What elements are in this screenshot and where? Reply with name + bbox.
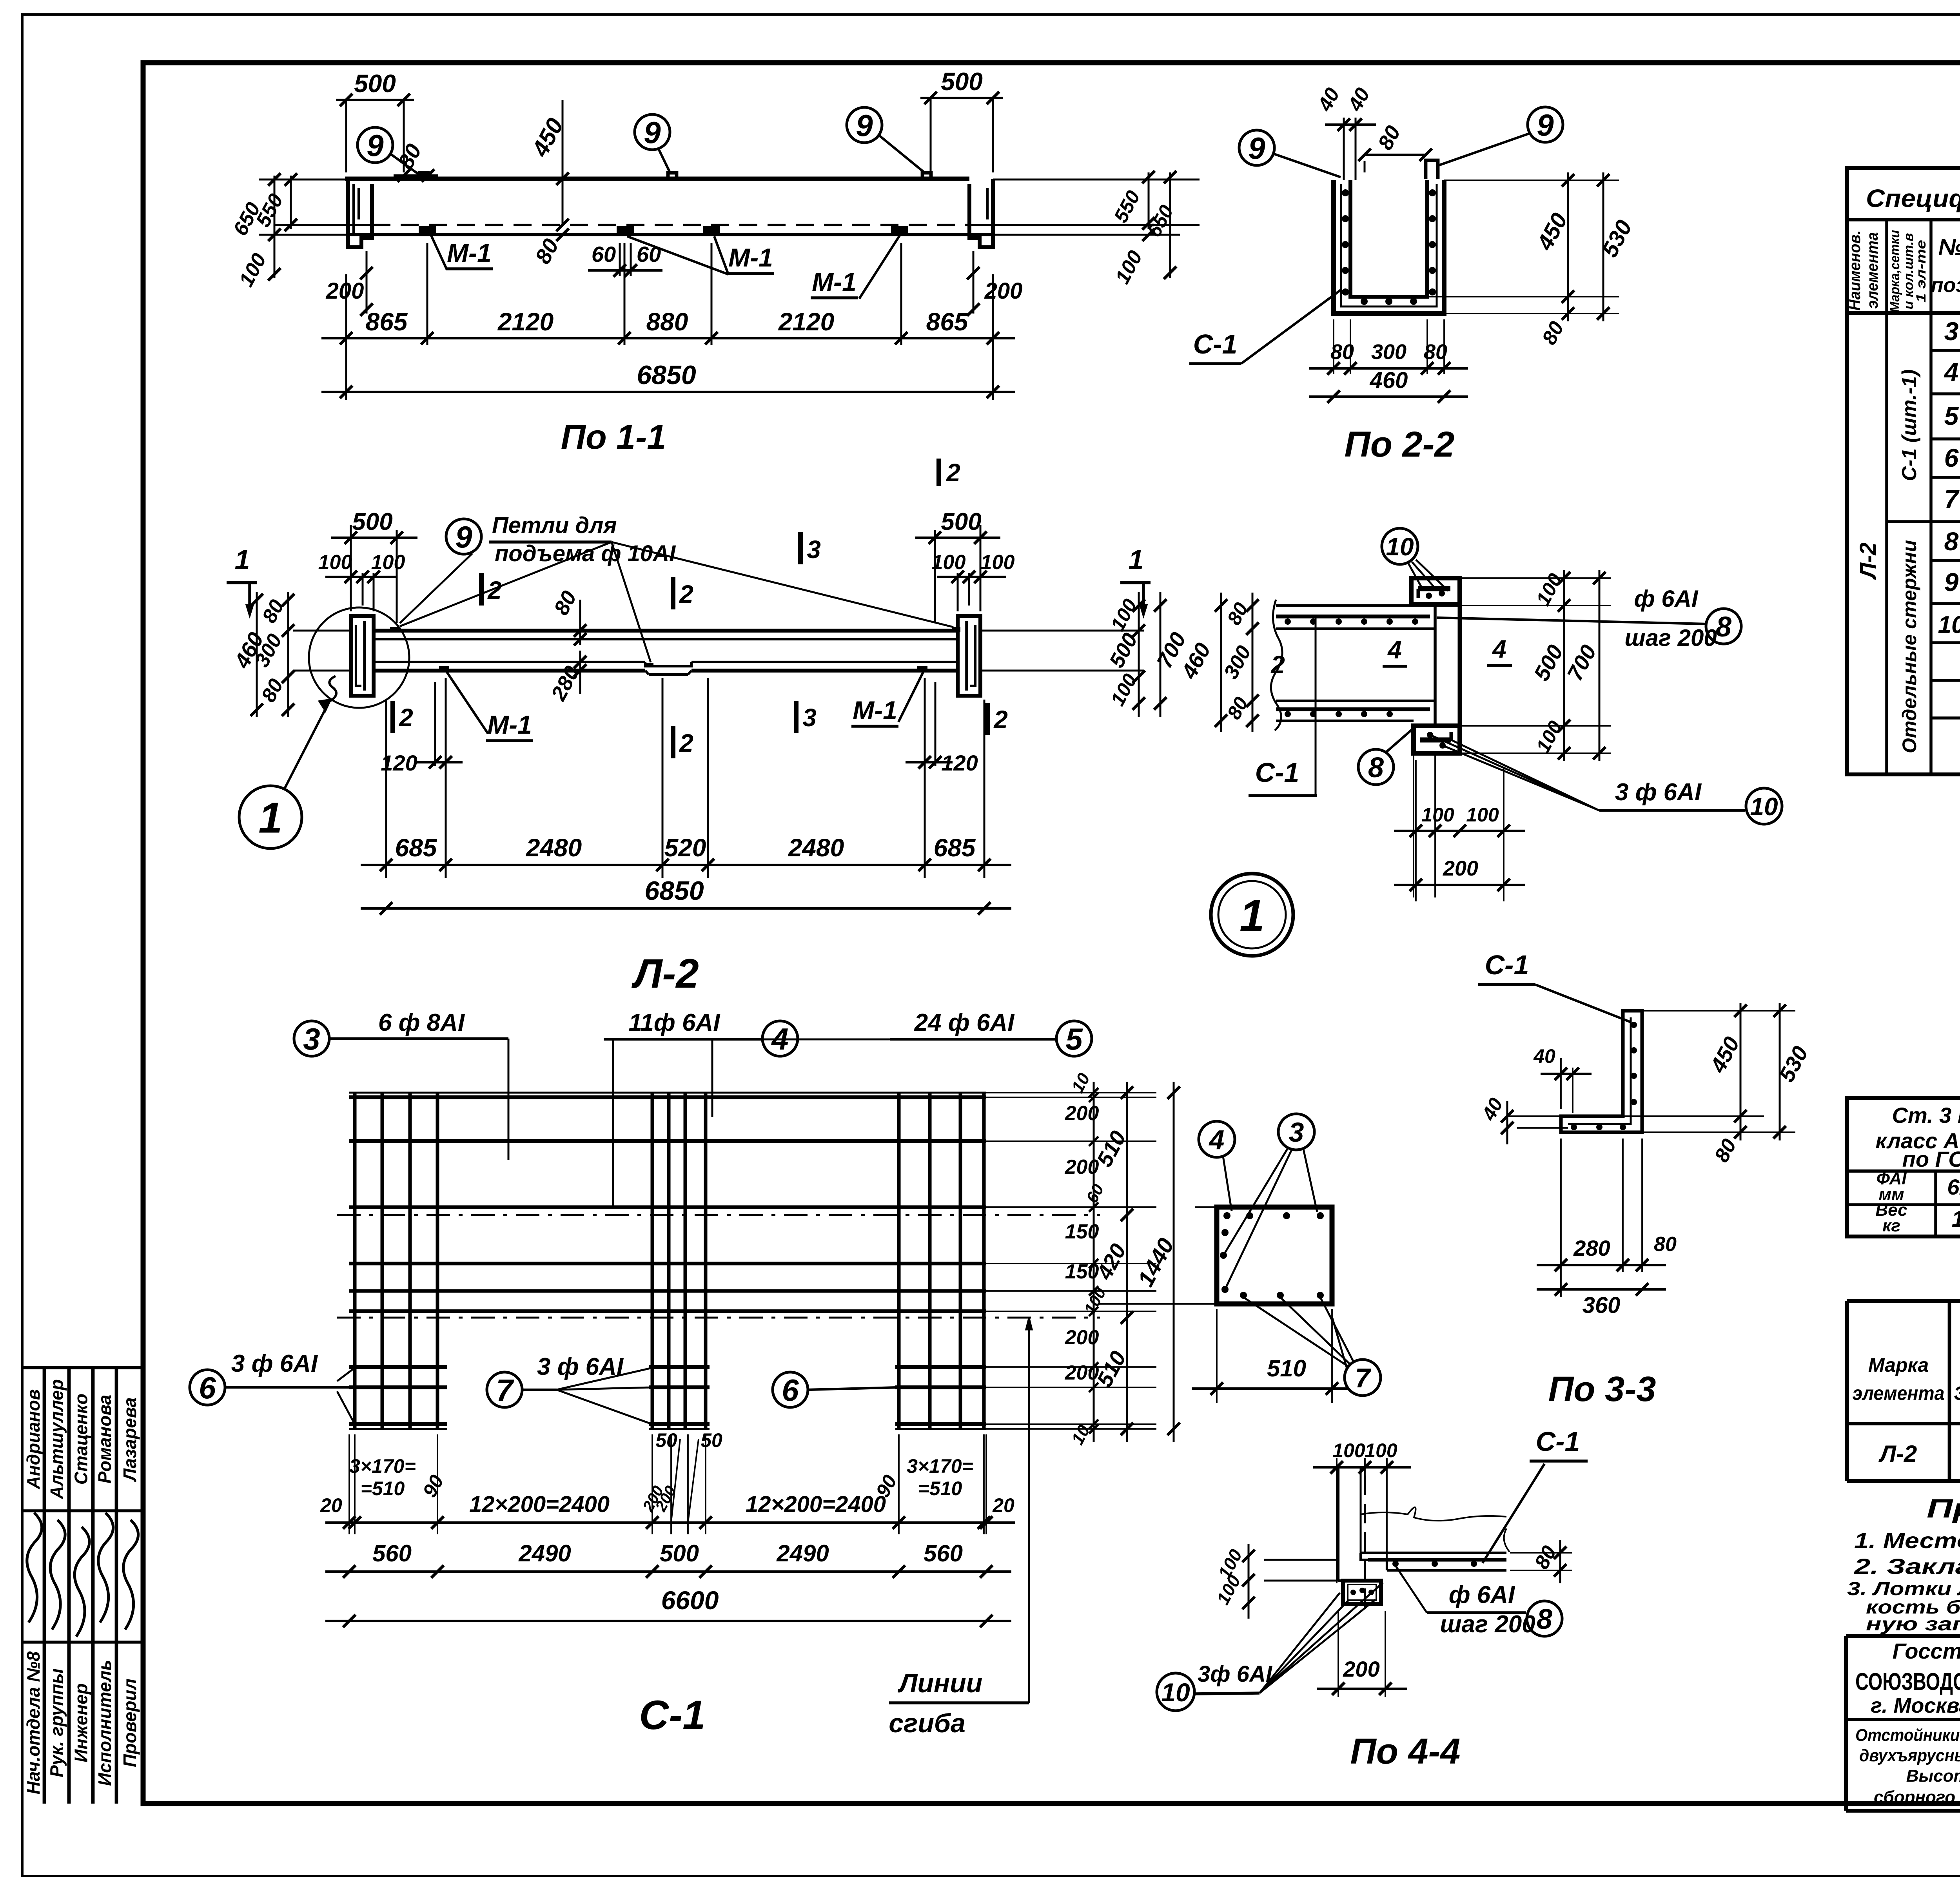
- circle 9 right По 2-2: [1528, 107, 1563, 142]
- svg-text:ф 6АI: ф 6АI: [1449, 1581, 1515, 1608]
- По 4-4 slab rebar dots: [1392, 1561, 1399, 1567]
- svg-text:100: 100: [981, 551, 1015, 574]
- С-1 mesh horizontal bars: [349, 1095, 986, 1099]
- svg-text:2490: 2490: [776, 1540, 829, 1566]
- node right dims 100 500 100 700: [1460, 577, 1611, 579]
- svg-text:6600: 6600: [661, 1586, 719, 1615]
- section По 1-1 beam top line: [345, 177, 969, 181]
- М-1 label middle: [627, 236, 728, 274]
- section mark 2 top left: [479, 573, 484, 606]
- svg-text:М-1: М-1: [487, 710, 532, 739]
- svg-text:200: 200: [326, 278, 364, 304]
- svg-text:6: 6: [782, 1373, 799, 1407]
- svg-text:4: 4: [1387, 636, 1402, 664]
- svg-text:520: 520: [664, 834, 706, 862]
- Л-2 lifting loop marks: [390, 627, 399, 632]
- svg-text:200: 200: [1065, 1362, 1099, 1384]
- svg-text:865: 865: [366, 308, 408, 336]
- node detail wall: [1434, 604, 1437, 726]
- svg-text:Эл-та: Эл-та: [1954, 1382, 1960, 1404]
- svg-text:3. Лотки Л-l, Л-2 выполняютс: 3. Лотки Л-l, Л-2 выполняются из бетона …: [1847, 1579, 1960, 1599]
- circle 9 on Л-2: [446, 519, 481, 554]
- node detail axis line: [1434, 753, 1436, 897]
- node left dims 80 300 80 460: [1252, 593, 1254, 732]
- svg-text:460: 460: [1370, 368, 1408, 393]
- title block left cell: [1846, 1718, 1960, 1721]
- svg-text:Марка: Марка: [1868, 1354, 1929, 1376]
- С-1 mesh leg rods: [353, 1314, 357, 1429]
- section mark 2 bottom center: [671, 726, 675, 758]
- svg-text:2. Закладная деталь: 2. Закладная деталь М-1 показана на лист…: [1854, 1554, 1960, 1579]
- Л-2 plan central jog: [645, 662, 649, 666]
- svg-text:8: 8: [1537, 1604, 1552, 1635]
- svg-text:300: 300: [1371, 340, 1406, 364]
- svg-text:865: 865: [926, 308, 969, 336]
- svg-text:М-1: М-1: [853, 696, 897, 725]
- По 4-4 break wavy line: [1361, 1507, 1506, 1521]
- dimension 500 top right wing: [980, 525, 982, 573]
- circle 8 left bottom: [1358, 749, 1394, 785]
- По 2-2 loop legs 40 40: [1343, 118, 1345, 180]
- svg-text:2: 2: [679, 580, 693, 608]
- svg-text:С-1: С-1: [1255, 757, 1299, 788]
- dimension 100 100 right wing top: [957, 573, 959, 611]
- Л-2 plan bottom slab edge left part: [374, 661, 645, 663]
- С-1 mesh vertical rods upper: [353, 1093, 357, 1314]
- svg-text:3 ф 6АI: 3 ф 6АI: [231, 1350, 318, 1377]
- svg-text:500: 500: [660, 1540, 699, 1566]
- svg-text:9: 9: [455, 520, 472, 554]
- steel table grid: [1847, 1098, 1960, 1236]
- svg-text:3ф 6АI: 3ф 6АI: [1198, 1661, 1273, 1687]
- svg-text:3×170=: 3×170=: [907, 1455, 973, 1477]
- dimension 100 100 left wing top: [350, 573, 352, 611]
- svg-text:80: 80: [1330, 340, 1354, 364]
- svg-text:Марка,сетки: Марка,сетки: [1887, 230, 1902, 312]
- По 4-4 bottom dim 200: [1338, 1611, 1339, 1697]
- svg-text:20: 20: [992, 1494, 1014, 1516]
- По 2-2 bottom dims 80 300 80: [1333, 319, 1334, 374]
- С-1 mesh bend lines: [337, 1214, 1100, 1216]
- svg-text:1: 1: [235, 544, 250, 575]
- svg-text:150: 150: [1065, 1220, 1099, 1243]
- По 2-2 inner cavity: [1350, 180, 1427, 297]
- section mark 3 bottom middle: [794, 701, 799, 733]
- loop leader lines: [400, 542, 612, 626]
- svg-text:Лазарева: Лазарева: [120, 1397, 140, 1482]
- По 3-3 rebar: [1568, 1017, 1631, 1124]
- dimension 500 top left wing: [350, 525, 352, 573]
- По 2-2 total 460: [1309, 395, 1468, 398]
- square detail box: [1217, 1207, 1332, 1304]
- svg-text:4: 4: [1944, 357, 1959, 386]
- svg-text:2120: 2120: [778, 308, 834, 336]
- circle 6 left label 3ф6АI: [190, 1370, 225, 1405]
- svg-text:50: 50: [701, 1429, 722, 1451]
- По 3-3 dim 40 horizontal: [1560, 1058, 1562, 1109]
- По 2-2 rebar dots: [1342, 189, 1349, 196]
- svg-text:кг: кг: [1882, 1216, 1900, 1235]
- Л-2 embed М-1 marks: [439, 666, 449, 671]
- svg-text:9: 9: [1944, 567, 1959, 596]
- svg-text:200: 200: [1065, 1326, 1099, 1349]
- node detail bottom slab: [1276, 700, 1435, 702]
- section mark 2 bottom left: [390, 701, 395, 733]
- svg-text:По 1-1: По 1-1: [561, 417, 666, 456]
- section mark 2 bottom right: [985, 703, 990, 735]
- section mark 3 top right: [798, 532, 803, 564]
- svg-text:9: 9: [856, 108, 873, 143]
- svg-text:20: 20: [320, 1494, 342, 1516]
- svg-text:С-1: С-1: [1485, 950, 1529, 980]
- svg-text:8: 8: [1716, 611, 1731, 643]
- С-1 mesh leg bottom edges: [349, 1428, 447, 1430]
- svg-text:Ст. 3 ГОСТ 380-60: Ст. 3 ГОСТ 380-60: [1892, 1103, 1960, 1128]
- svg-text:1: 1: [1240, 891, 1265, 941]
- svg-text:4: 4: [1209, 1124, 1225, 1155]
- node detail break line: [1271, 600, 1282, 731]
- svg-text:100: 100: [1421, 804, 1454, 826]
- circle 4 label 11ф6АI: [762, 1021, 798, 1056]
- М-1 label on plan right: [898, 672, 923, 722]
- dimension 80 at left loop: [394, 174, 438, 177]
- svg-text:200: 200: [1065, 1102, 1099, 1125]
- svg-text:6АI: 6АI: [1947, 1175, 1960, 1199]
- svg-text:Наименов.: Наименов.: [1846, 230, 1864, 311]
- svg-text:360: 360: [1583, 1293, 1621, 1318]
- circle 9 left: [358, 127, 393, 163]
- right dimension 200: [973, 251, 975, 314]
- svg-text:685: 685: [395, 834, 437, 862]
- По 4-4 corner box: [1343, 1581, 1381, 1604]
- svg-text:По 3-3: По 3-3: [1548, 1370, 1656, 1409]
- svg-text:120: 120: [941, 751, 978, 775]
- С-1 bottom dimension chain 1: [348, 1434, 350, 1534]
- svg-text:200: 200: [984, 278, 1023, 304]
- svg-text:элемента: элемента: [1853, 1382, 1945, 1404]
- svg-text:2120: 2120: [497, 308, 554, 336]
- svg-text:Примечания:: Примечания:: [1927, 1494, 1960, 1523]
- С-1 outer dims 510 420 510 1440: [1126, 1082, 1128, 1442]
- square detail ext line bottom: [1098, 1303, 1217, 1305]
- right end wall: [969, 179, 993, 247]
- svg-text:500: 500: [352, 508, 392, 535]
- svg-text:поз.: поз.: [1931, 274, 1960, 297]
- node detail top slab: [1276, 604, 1414, 607]
- svg-text:С-1: С-1: [1193, 329, 1238, 359]
- svg-text:40: 40: [1533, 1045, 1555, 1067]
- svg-text:4: 4: [1492, 635, 1506, 663]
- расход table grid: [1847, 1299, 1960, 1303]
- svg-text:60: 60: [592, 242, 616, 267]
- svg-text:2: 2: [1270, 651, 1285, 679]
- circle 3 square detail: [1278, 1114, 1314, 1150]
- svg-text:7: 7: [496, 1373, 514, 1407]
- svg-text:500: 500: [941, 67, 983, 96]
- svg-text:=510: =510: [918, 1478, 962, 1499]
- По 2-2 rebar line: [1341, 184, 1437, 306]
- Л-2 total dimension 6850: [361, 907, 1011, 910]
- 3 ф 6АI label with circle 10: [1157, 1673, 1194, 1711]
- svg-text:элемента: элемента: [1864, 232, 1881, 309]
- circle 8 right with label: [1706, 609, 1741, 644]
- svg-text:1. Местоположение лотка: 1. Местоположение лотка Л-2 смотрите на-…: [1854, 1528, 1960, 1553]
- svg-text:7: 7: [1355, 1363, 1372, 1393]
- С-1 total 6600: [325, 1620, 1011, 1622]
- svg-text:М-1: М-1: [728, 243, 773, 272]
- svg-text:685: 685: [934, 834, 976, 862]
- lifting loops on beam top: [419, 173, 428, 179]
- circle 10 bottom with label: [1746, 788, 1782, 824]
- svg-text:6 ф 8АI: 6 ф 8АI: [378, 1009, 465, 1036]
- svg-text:510: 510: [1267, 1355, 1306, 1381]
- Л-2 right wing: [958, 616, 980, 696]
- dimension 280 plan center: [574, 656, 586, 668]
- svg-text:6: 6: [199, 1371, 216, 1405]
- svg-text:Петли для: Петли для: [492, 513, 617, 538]
- svg-text:двухъярусные диаметром 9м: двухъярусные диаметром 9м: [1859, 1746, 1960, 1765]
- svg-text:по ГОСТ 5781-61: по ГОСТ 5781-61: [1902, 1147, 1960, 1171]
- svg-text:10: 10: [1161, 1678, 1190, 1707]
- svg-text:12×200=2400: 12×200=2400: [746, 1492, 886, 1517]
- svg-text:Нач.отдела №8: Нач.отдела №8: [23, 1651, 44, 1794]
- По 3-3 bottom dims 280 80 360: [1560, 1139, 1562, 1297]
- По 4-4 wall and slab outline: [1337, 1467, 1339, 1581]
- svg-text:Л-2: Л-2: [1878, 1441, 1917, 1467]
- svg-text:8: 8: [1944, 527, 1959, 556]
- node detail top corner box: [1411, 578, 1460, 604]
- node bottom dims 100 100 200: [1415, 760, 1417, 901]
- По 4-4 dim 80 right: [1510, 1552, 1572, 1554]
- circle 3 label 6ф8АI: [294, 1021, 329, 1056]
- svg-text:9: 9: [367, 128, 384, 163]
- svg-text:3: 3: [807, 535, 821, 564]
- svg-text:г. Москва: г. Москва: [1871, 1694, 1960, 1717]
- М-1 label on plan left: [447, 672, 488, 734]
- beam bottom slab solid line: [348, 233, 993, 236]
- По 4-4 top dims 100 100: [1336, 1458, 1338, 1583]
- svg-text:2: 2: [399, 703, 413, 732]
- svg-text:200: 200: [1443, 857, 1478, 880]
- left level dimensions 650 550 100: [274, 176, 276, 278]
- svg-text:ф 6АI: ф 6АI: [1634, 586, 1698, 612]
- embed plates М-1 in По 1-1: [419, 226, 436, 234]
- Л-2 left wing: [351, 616, 374, 696]
- svg-text:2490: 2490: [518, 1540, 571, 1566]
- svg-text:Исполнитель: Исполнитель: [94, 1660, 115, 1786]
- С-1 mesh top edge line: [349, 1092, 986, 1094]
- dimension 450 vertical: [562, 100, 564, 225]
- svg-text:2480: 2480: [788, 834, 844, 862]
- svg-text:560: 560: [372, 1540, 412, 1566]
- svg-text:6850: 6850: [637, 360, 696, 390]
- svg-text:№: №: [1938, 234, 1960, 260]
- Л-2 left dimension stack 80 460 300 80: [287, 592, 289, 717]
- svg-text:3×170=: 3×170=: [349, 1455, 416, 1477]
- М-1 label right: [859, 236, 900, 299]
- svg-text:10: 10: [1938, 611, 1960, 638]
- left dimension 200: [366, 251, 368, 314]
- svg-text:Высотой 8,5м из: Высотой 8,5м из: [1906, 1766, 1960, 1786]
- svg-text:6: 6: [1944, 443, 1959, 472]
- circle 9 right: [847, 107, 882, 143]
- svg-text:По 4-4: По 4-4: [1350, 1731, 1461, 1771]
- dimension 80 plan center: [579, 600, 581, 645]
- svg-text:9: 9: [1537, 108, 1554, 142]
- svg-text:7: 7: [1944, 484, 1960, 513]
- svg-text:100: 100: [1332, 1440, 1365, 1461]
- left end wall: [348, 179, 372, 247]
- svg-text:500: 500: [354, 69, 396, 98]
- svg-text:3 ф 6АI: 3 ф 6АI: [1615, 779, 1702, 806]
- square detail dim 510: [1216, 1309, 1218, 1403]
- svg-text:10: 10: [1386, 533, 1414, 561]
- svg-text:10: 10: [1750, 792, 1778, 821]
- right extension lines: [993, 179, 1200, 181]
- svg-text:12×200=2400: 12×200=2400: [469, 1492, 610, 1517]
- beam hidden dashed line: [372, 224, 968, 226]
- svg-text:2: 2: [993, 705, 1008, 734]
- circle 7 label 3ф6АI: [487, 1372, 522, 1407]
- М-1 label left: [431, 236, 447, 270]
- svg-text:Отстойники канализационные: Отстойники канализационные: [1855, 1726, 1960, 1745]
- svg-text:3: 3: [802, 703, 817, 732]
- svg-text:шаг 200: шаг 200: [1624, 625, 1717, 651]
- svg-text:Рук. группы: Рук. группы: [47, 1668, 67, 1777]
- svg-text:100: 100: [318, 551, 352, 574]
- svg-text:С-1: С-1: [639, 1692, 705, 1738]
- По 1-1 total dimension 6850: [321, 391, 1015, 393]
- svg-text:1: 1: [1129, 544, 1144, 575]
- svg-text:шаг 200: шаг 200: [1440, 1611, 1535, 1638]
- По 2-2 right dimensions 450 530 80: [1444, 179, 1619, 181]
- svg-text:Андрианов: Андрианов: [23, 1389, 44, 1490]
- svg-text:М-1: М-1: [447, 238, 492, 267]
- svg-text:2: 2: [946, 459, 960, 487]
- Л-2 plan top slab edge: [374, 629, 958, 633]
- svg-text:80: 80: [1654, 1233, 1677, 1256]
- По 2-2 outer outline: [1334, 180, 1444, 314]
- svg-text:3: 3: [1944, 317, 1959, 346]
- svg-text:6850: 6850: [644, 876, 704, 906]
- circle 6 right: [773, 1372, 808, 1407]
- svg-text:Стаценко: Стаценко: [71, 1394, 91, 1485]
- circle 9 middle: [635, 114, 670, 150]
- svg-text:1: 1: [258, 794, 282, 842]
- svg-text:сгиба: сгиба: [889, 1708, 965, 1738]
- svg-text:560: 560: [924, 1540, 963, 1566]
- signature block grid: [22, 1366, 143, 1369]
- svg-text:М-1: М-1: [812, 267, 857, 296]
- dimension 80 slab thickness: [556, 219, 569, 231]
- dimension 60 60 middle: [619, 243, 621, 276]
- svg-text:200: 200: [1343, 1657, 1379, 1681]
- svg-text:=510: =510: [361, 1478, 405, 1499]
- svg-text:280: 280: [1573, 1236, 1610, 1260]
- svg-text:100: 100: [1466, 804, 1499, 826]
- right level dimensions 550 650 100: [1148, 172, 1150, 229]
- По 3-3 outline: [1561, 1011, 1642, 1132]
- detail circle on left wing: [309, 607, 409, 708]
- spec table outer and grid: [1847, 168, 1960, 774]
- dimension 500 top right: [920, 97, 1003, 99]
- svg-text:11ф 6АI: 11ф 6АI: [629, 1009, 721, 1036]
- left extension lines: [259, 179, 348, 181]
- circle 5 label 24ф6АI: [1056, 1021, 1092, 1056]
- По 4-4 left break lines: [1264, 1559, 1338, 1561]
- svg-text:2: 2: [487, 576, 502, 604]
- svg-text:50: 50: [655, 1429, 677, 1451]
- title block outline: [1846, 1634, 1960, 1638]
- svg-text:3: 3: [303, 1022, 320, 1056]
- svg-text:Л-2: Л-2: [631, 951, 699, 997]
- svg-text:60: 60: [637, 242, 661, 267]
- svg-text:Инженер: Инженер: [71, 1683, 91, 1762]
- svg-text:100: 100: [1365, 1440, 1397, 1461]
- svg-text:2: 2: [679, 729, 693, 757]
- svg-text:С-1: С-1: [1536, 1426, 1580, 1457]
- big circle 1 with arrow: [239, 786, 302, 848]
- svg-text:880: 880: [646, 308, 688, 336]
- По 4-4 left dims 100 100: [1248, 1544, 1250, 1619]
- svg-text:подъема ф 10АI: подъема ф 10АI: [495, 541, 676, 566]
- svg-text:9: 9: [644, 115, 661, 150]
- circle 9 left По 2-2: [1239, 130, 1274, 165]
- По 2-2 right wall loop: [1426, 160, 1438, 179]
- section mark 2 top middle: [671, 577, 675, 609]
- dimension 80 top: [1365, 154, 1426, 156]
- svg-text:Л-2: Л-2: [1855, 542, 1881, 580]
- По 3-3 dim 40 vertical: [1507, 1115, 1561, 1117]
- svg-text:500: 500: [941, 508, 981, 535]
- svg-text:1 эл-те: 1 эл-те: [1914, 240, 1929, 303]
- svg-text:ную записку). Совместно с: ную записку). Совместно с данным см. л. …: [1866, 1614, 1960, 1635]
- svg-text:СОЮЗВОДОКАНАЛПРОЕКТ: СОЮЗВОДОКАНАЛПРОЕКТ: [1855, 1668, 1960, 1695]
- По 4-4 axis dashed: [1364, 1476, 1366, 1609]
- node detail bottom corner box: [1414, 726, 1460, 753]
- svg-text:5: 5: [1944, 401, 1959, 430]
- svg-text:8: 8: [1368, 752, 1384, 783]
- svg-text:9: 9: [1248, 131, 1265, 165]
- svg-text:100: 100: [932, 551, 966, 574]
- svg-text:3: 3: [1289, 1117, 1304, 1148]
- Л-2 bottom dimension chain 685 2480 520 2480 685: [385, 700, 387, 878]
- svg-text:С-1 (шт.-1): С-1 (шт.-1): [1898, 369, 1921, 481]
- svg-text:Альтшуллер: Альтшуллер: [47, 1379, 67, 1499]
- svg-text:80: 80: [1424, 340, 1447, 364]
- Л-2 plan bottom slab edge right part: [691, 661, 958, 663]
- По 1-1 bottom dimension chain 865 2120 880 2120 865: [345, 274, 347, 400]
- По 3-3 right dims 450 530 80: [1642, 1010, 1795, 1012]
- dimension 500 top left: [336, 99, 414, 101]
- svg-text:5: 5: [1065, 1022, 1083, 1056]
- square detail dots: [1223, 1212, 1230, 1219]
- dimension 120 left: [434, 682, 436, 766]
- circle 7 square detail: [1345, 1360, 1381, 1396]
- С-1 mesh leg bars: [349, 1365, 447, 1369]
- svg-text:Отдельные стержни: Отдельные стержни: [1898, 540, 1920, 753]
- svg-text:Линии: Линии: [897, 1668, 982, 1698]
- svg-text:100: 100: [371, 551, 405, 574]
- svg-text:По 2-2: По 2-2: [1345, 424, 1455, 464]
- circle 10 top: [1382, 528, 1418, 564]
- section mark 2 right of По 1-1: [936, 459, 941, 486]
- svg-text:24 ф 6АI: 24 ф 6АI: [914, 1009, 1015, 1036]
- dimension 120 right: [924, 737, 926, 766]
- svg-text:16: 16: [1952, 1206, 1960, 1232]
- С-1 right dimension stack: [986, 1092, 1156, 1093]
- circle 4 square detail: [1199, 1121, 1235, 1157]
